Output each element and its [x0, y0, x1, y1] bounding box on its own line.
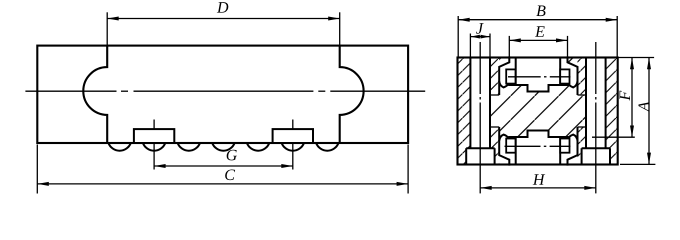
left view body outline [37, 46, 408, 143]
tab centerline / G extension [153, 120, 155, 136]
svg-text:H: H [532, 172, 546, 189]
left counterbore [466, 148, 494, 164]
fine hatching: inner bands [490, 58, 499, 96]
D extension lines [106, 12, 108, 45]
bolt hole centerline [479, 42, 481, 94]
right bolt hole slot [586, 58, 606, 149]
svg-text:B: B [536, 3, 546, 20]
svg-text:E: E [534, 24, 545, 41]
dimension D [107, 18, 340, 20]
svg-text:J: J [476, 21, 484, 38]
left view horizontal centerline [25, 90, 116, 92]
bottom right retainer [560, 139, 569, 153]
svg-text:D: D [216, 0, 229, 17]
top rail bar [515, 58, 517, 86]
top right retainer [560, 69, 569, 83]
top edge extension line [618, 57, 654, 59]
left tab [134, 129, 174, 143]
dimension H [480, 187, 596, 189]
svg-text:A: A [636, 101, 653, 112]
part boundary lines between outer block and bushing [490, 94, 499, 96]
bottom left retainer [506, 139, 515, 153]
right tab [273, 129, 313, 143]
bottom pocket (rail groove with seals) [499, 131, 577, 166]
right hole outline [585, 58, 587, 149]
F extension line [592, 136, 635, 138]
B extension lines [457, 16, 459, 57]
bottom rail bar [515, 137, 517, 165]
left bolt hole slot [470, 58, 490, 149]
top pocket centerline [508, 76, 541, 78]
top pocket (rail groove with seals) [499, 56, 577, 91]
section block outline [458, 58, 618, 165]
right counterbore [582, 148, 610, 164]
bottom pocket centerline [505, 145, 541, 147]
svg-text:G: G [226, 147, 238, 164]
svg-text:C: C [224, 167, 235, 184]
pocket wall extensions [498, 81, 500, 95]
dimension E [509, 39, 567, 41]
dimension B [458, 19, 617, 21]
left hole outline [469, 58, 471, 149]
dimension C [37, 183, 408, 185]
top left retainer [506, 69, 515, 83]
scallop arcs along bottom edge [108, 143, 130, 151]
dimension J [470, 36, 490, 38]
E extension lines [508, 36, 510, 57]
svg-text:F: F [617, 90, 634, 101]
J extension lines [469, 34, 471, 57]
right inner edge with semicircular bulge [340, 46, 364, 143]
C extension lines [36, 145, 38, 194]
coarse hatching: central bushing part [490, 58, 606, 165]
dimension G [154, 165, 293, 167]
left inner edge with semicircular bulge [83, 46, 107, 143]
dimension F [631, 58, 633, 137]
tab centerline / G extension [292, 120, 294, 136]
bolt hole centerline [595, 42, 597, 94]
fine hatching: outer block left strip [458, 58, 471, 165]
A extension line [620, 163, 655, 165]
fine hatching: outer block right strip [606, 58, 618, 165]
dimension A [648, 58, 650, 164]
